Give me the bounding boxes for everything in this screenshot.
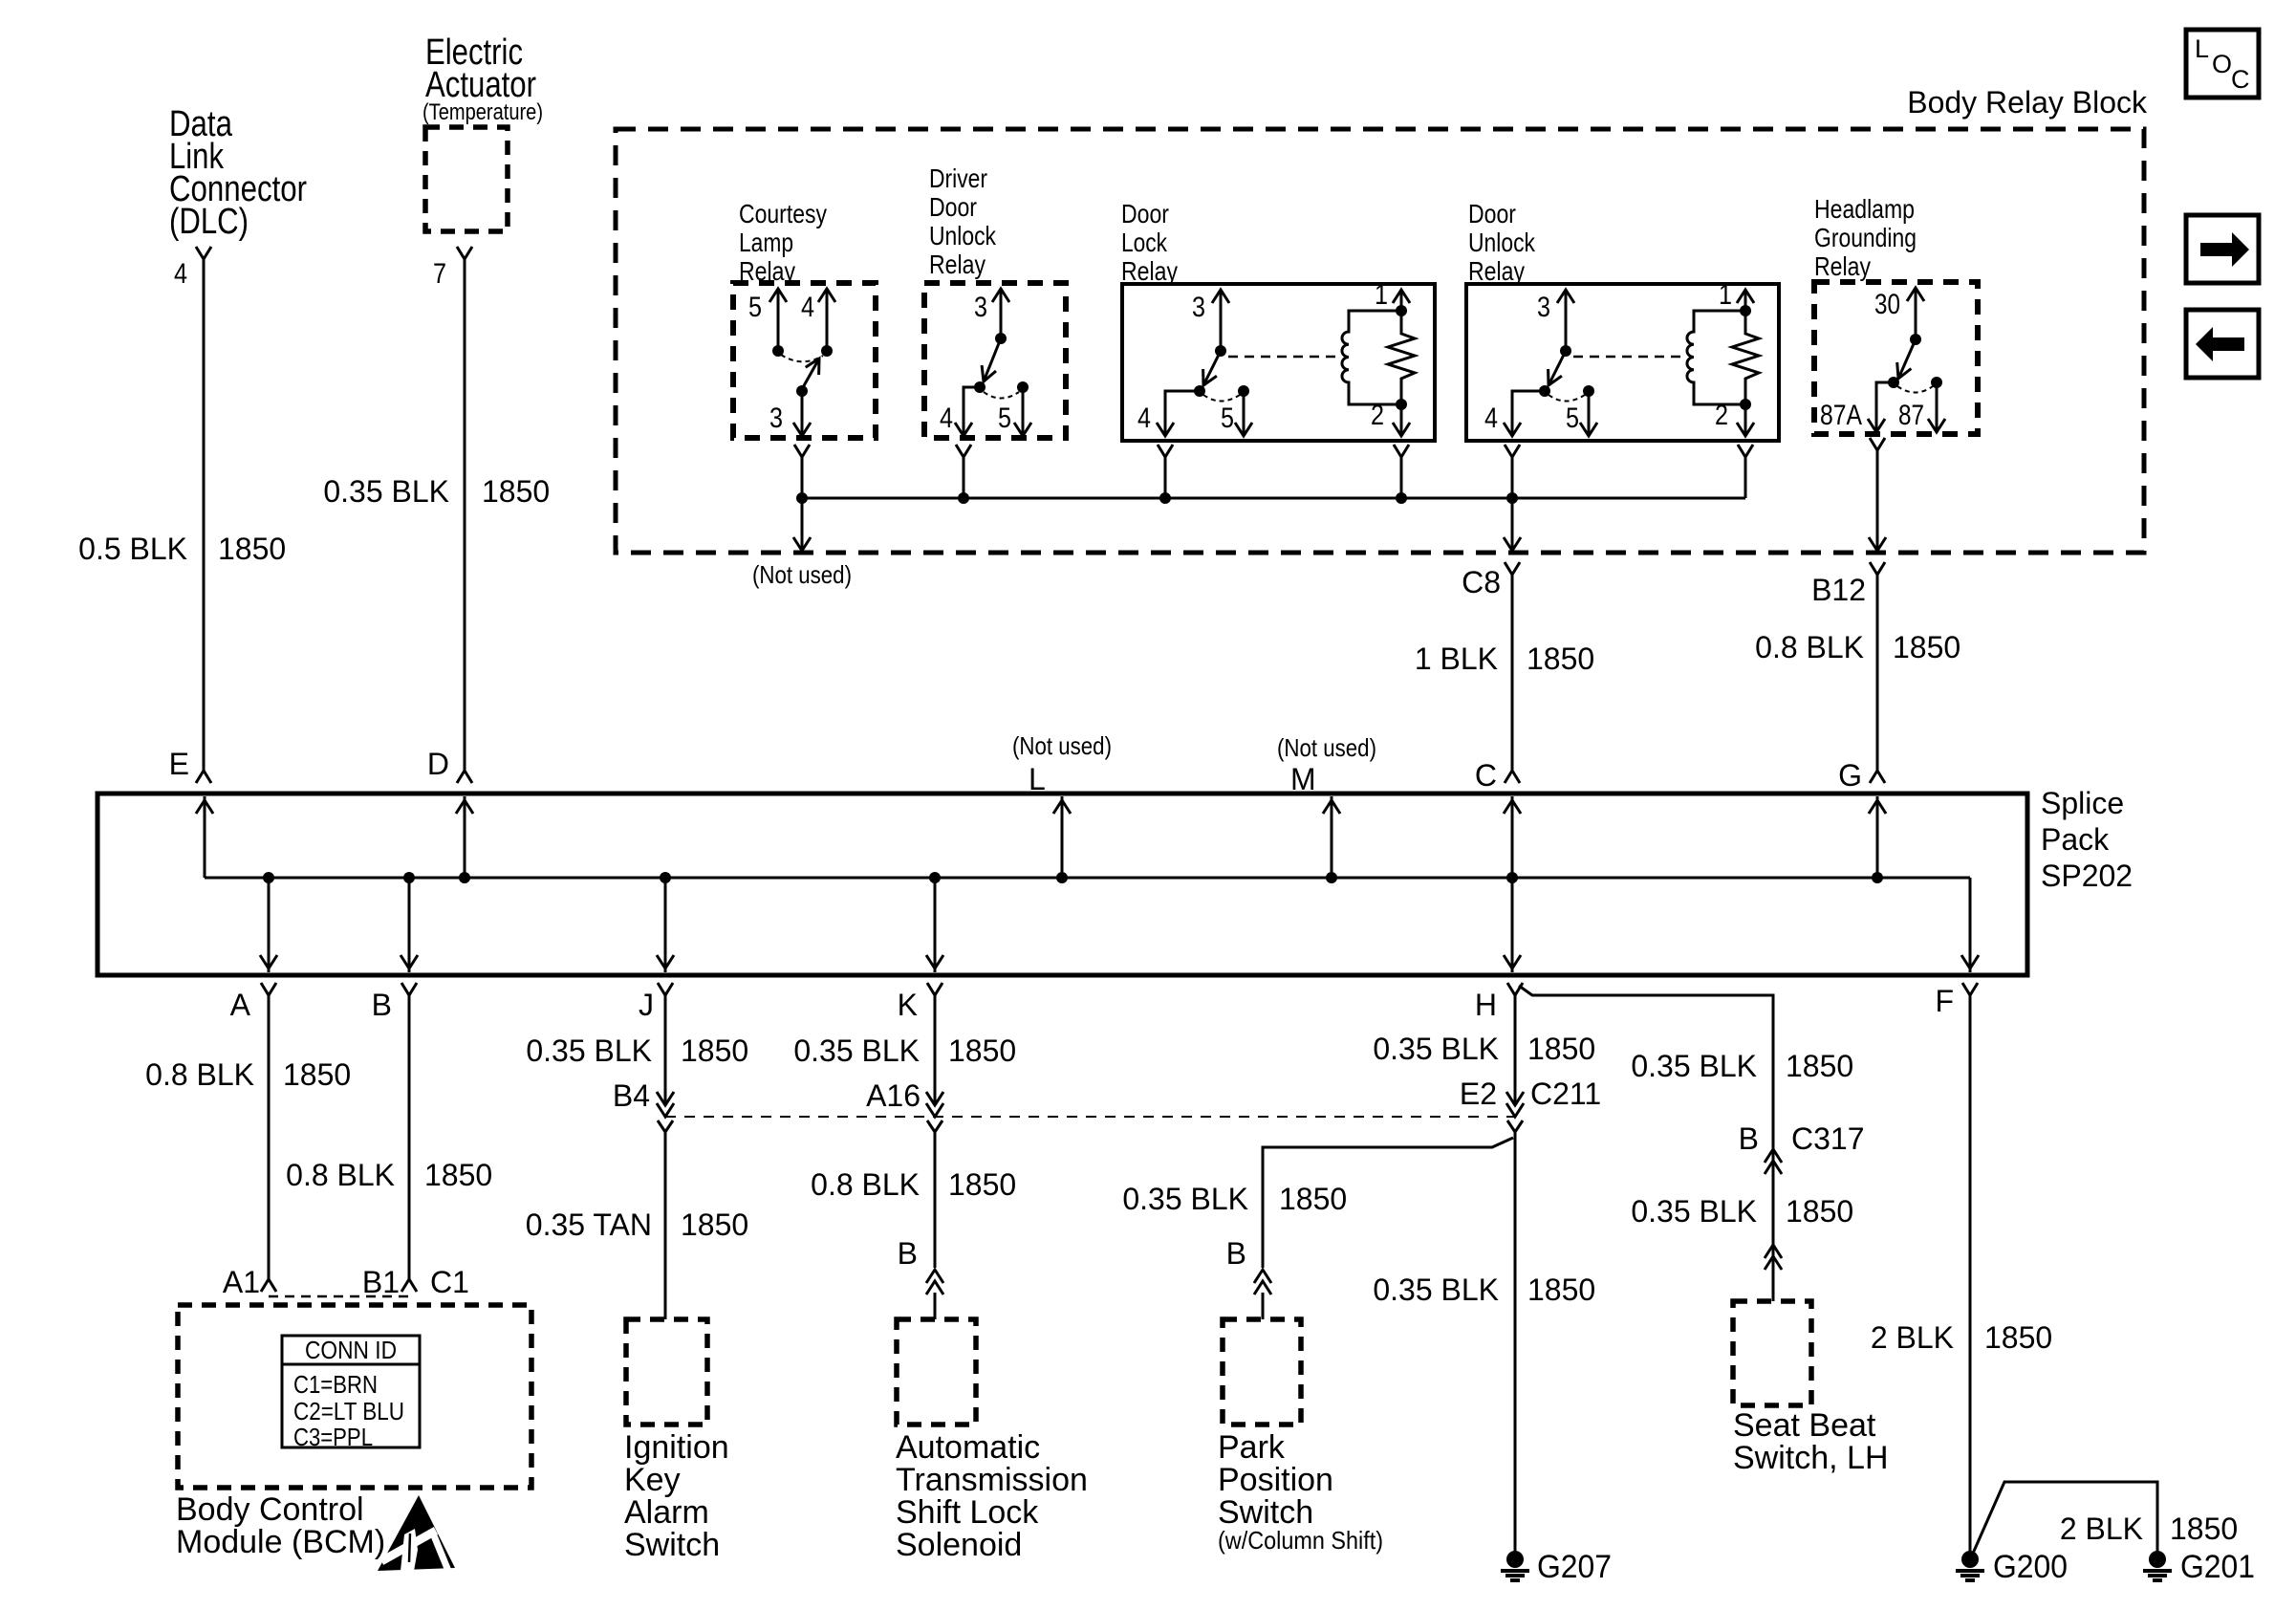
- switch arc: [1549, 395, 1585, 402]
- actuator pin 7 connector: [433, 247, 472, 290]
- svg-text:E2: E2: [1460, 1077, 1497, 1111]
- pin A16 connector: [866, 1078, 943, 1117]
- svg-text:1850: 1850: [283, 1057, 351, 1092]
- svg-text:0.35 BLK: 0.35 BLK: [323, 474, 449, 509]
- Body Relay Block title: [1907, 85, 2148, 120]
- svg-text:(Not used): (Not used): [1012, 731, 1112, 760]
- coil link dashed: [1573, 356, 1686, 359]
- pin 3: [1192, 290, 1229, 357]
- svg-text:0.35 BLK: 0.35 BLK: [1373, 1273, 1499, 1307]
- svg-text:Driver: Driver: [929, 163, 987, 193]
- terminal B arrow: [401, 872, 418, 972]
- switch arm: [1549, 351, 1566, 385]
- svg-text:Body Relay Block: Body Relay Block: [1907, 85, 2148, 120]
- svg-text:G207: G207: [1537, 1549, 1612, 1585]
- wire B12 to splice pack G: [1876, 575, 1879, 771]
- svg-text:J: J: [639, 988, 654, 1022]
- Ignition Key Alarm Switch box: [626, 1319, 707, 1425]
- svg-text:K: K: [898, 988, 918, 1022]
- svg-text:B: B: [898, 1236, 918, 1271]
- splice pack terminal G connector: [1838, 758, 1885, 793]
- pin 5: [998, 381, 1031, 436]
- switch arc: [781, 355, 823, 361]
- relay coil: [1342, 311, 1401, 404]
- Electric Actuator label: [422, 33, 543, 125]
- terminal H connector: [1475, 983, 1523, 1022]
- svg-text:1850: 1850: [2170, 1512, 2238, 1546]
- wire K to solenoid: [934, 1132, 937, 1268]
- Door Lock Relay title: [1121, 199, 1178, 286]
- K lower connector: [927, 1120, 942, 1132]
- Driver Door Unlock Relay title: [929, 163, 997, 279]
- pin 3: [769, 391, 811, 436]
- wire label 0.35 BLK 1850: [793, 1033, 1016, 1068]
- relay K5 Headlamp Grounding Relay box: [1814, 282, 1978, 434]
- svg-text:(DLC): (DLC): [169, 202, 249, 242]
- svg-text:1: 1: [1375, 279, 1388, 311]
- svg-text:5: 5: [1221, 402, 1234, 434]
- Park Position Switch box: [1223, 1319, 1301, 1425]
- svg-text:Body Control: Body Control: [176, 1491, 364, 1528]
- C8 exit arrow: [1504, 537, 1521, 551]
- ground G201: [2143, 1549, 2255, 1585]
- switch arm: [1203, 351, 1221, 385]
- relay box: [1466, 284, 1779, 441]
- terminal A arrow: [260, 872, 277, 972]
- wire label 2 BLK 1850: [1871, 1320, 2052, 1355]
- switch arc: [1203, 395, 1240, 402]
- wire label 0.35 BLK 1850: [1373, 1273, 1595, 1307]
- svg-text:1: 1: [1719, 279, 1732, 311]
- svg-text:0.5 BLK: 0.5 BLK: [78, 532, 187, 566]
- svg-text:A16: A16: [866, 1078, 921, 1113]
- svg-text:Alarm: Alarm: [624, 1494, 709, 1531]
- wire F to ground G200: [1969, 995, 1972, 1551]
- svg-text:1850: 1850: [681, 1033, 748, 1068]
- wire label 0.35 BLK 1850: [1631, 1194, 1853, 1229]
- forward arrow box: [2186, 215, 2259, 283]
- svg-text:2: 2: [1715, 400, 1728, 431]
- svg-text:E: E: [169, 747, 189, 781]
- node B12 connector: [1811, 562, 1885, 607]
- Automatic Transmission Shift Lock Solenoid box: [897, 1319, 976, 1425]
- wire label 0.35 BLK 1850: [526, 1033, 748, 1068]
- wire label 0.8 BLK 1850: [1755, 630, 1960, 664]
- svg-text:(Temperature): (Temperature): [422, 99, 543, 125]
- pin 5: [1566, 385, 1597, 436]
- svg-text:C211: C211: [1530, 1077, 1601, 1111]
- pin 1: [1375, 279, 1410, 316]
- not used drop wire: [793, 498, 811, 551]
- splice pack terminal C connector: [1475, 758, 1520, 793]
- wire H to ground G207: [1514, 1132, 1517, 1551]
- svg-text:4: 4: [801, 292, 814, 323]
- wire D from actuator to splice pack: [464, 259, 466, 771]
- splice bus: [205, 877, 1970, 880]
- wire label 0.8 BLK 1850: [286, 1158, 492, 1192]
- svg-text:O: O: [2212, 50, 2232, 78]
- svg-text:5: 5: [748, 292, 762, 323]
- pin 4: [801, 289, 835, 357]
- seat belt switch connector: [1765, 1245, 1782, 1270]
- switch arm: [1897, 339, 1916, 379]
- svg-text:B12: B12: [1811, 573, 1866, 607]
- pin B connector C317: [1739, 1121, 1865, 1174]
- svg-text:B: B: [1739, 1121, 1759, 1156]
- (Not used) label for L: [1012, 731, 1112, 796]
- svg-text:4: 4: [174, 258, 187, 290]
- svg-text:Unlock: Unlock: [929, 221, 997, 250]
- svg-text:87A: 87A: [1820, 400, 1862, 431]
- svg-text:A: A: [230, 988, 251, 1022]
- svg-text:Relay: Relay: [1121, 256, 1178, 286]
- wire C8 to splice pack C: [1511, 575, 1514, 771]
- pin 87A: [1820, 377, 1899, 432]
- svg-text:(w/Column Shift): (w/Column Shift): [1218, 1526, 1383, 1555]
- svg-text:0.8 BLK: 0.8 BLK: [145, 1057, 254, 1092]
- back arrow box: [2186, 310, 2259, 378]
- Body Control Module box: [178, 1305, 531, 1488]
- svg-text:87: 87: [1898, 400, 1924, 431]
- Body Relay Block boundary: [616, 129, 2144, 553]
- svg-text:1850: 1850: [482, 474, 550, 509]
- relay coil: [1687, 311, 1745, 404]
- Data Link Connector (DLC) label: [169, 104, 307, 242]
- svg-text:Grounding: Grounding: [1814, 223, 1917, 252]
- svg-text:G201: G201: [2180, 1549, 2255, 1585]
- pin 4: [1484, 385, 1550, 436]
- svg-text:5: 5: [998, 402, 1011, 434]
- svg-text:B: B: [1226, 1236, 1246, 1271]
- wire label 0.5 BLK 1850: [78, 532, 286, 566]
- svg-text:3: 3: [1192, 292, 1205, 323]
- pin A1 connector: [223, 1265, 276, 1299]
- wire label 0.8 BLK 1850: [811, 1167, 1016, 1202]
- wire label 0.35 BLK 1850: [323, 474, 550, 509]
- svg-text:2 BLK: 2 BLK: [2060, 1512, 2143, 1546]
- Automatic Transmission Shift Lock Solenoid label: [896, 1429, 1088, 1563]
- Body Control Module label: [176, 1491, 385, 1560]
- H lower connector: [1507, 1120, 1523, 1132]
- svg-text:Relay: Relay: [929, 250, 986, 279]
- svg-text:1850: 1850: [681, 1207, 748, 1242]
- Headlamp Grounding Relay title: [1814, 194, 1917, 281]
- svg-text:2: 2: [1371, 400, 1384, 431]
- relay K1 Courtesy Lamp Relay box: [733, 283, 876, 438]
- terminal C H line: [1504, 796, 1521, 972]
- svg-text:0.8 BLK: 0.8 BLK: [811, 1167, 920, 1202]
- terminal A connector: [230, 983, 276, 1022]
- svg-text:Shift Lock: Shift Lock: [896, 1494, 1039, 1531]
- svg-text:C: C: [1475, 758, 1497, 793]
- svg-text:0.35 BLK: 0.35 BLK: [1631, 1049, 1757, 1083]
- svg-text:D: D: [427, 747, 449, 781]
- door lock pin2 connector: [1394, 445, 1409, 498]
- relay box: [1122, 284, 1435, 441]
- switch arm: [796, 359, 819, 397]
- svg-text:0.35 BLK: 0.35 BLK: [1631, 1194, 1757, 1229]
- terminal L arrow: [1053, 796, 1071, 883]
- svg-text:Lock: Lock: [1121, 228, 1168, 257]
- svg-text:B1: B1: [362, 1265, 400, 1299]
- relay resistor: [1388, 311, 1415, 404]
- terminal K arrow: [926, 872, 943, 972]
- svg-text:0.8 BLK: 0.8 BLK: [1755, 630, 1864, 664]
- pin 2: [1715, 399, 1754, 436]
- terminal D arrow: [456, 796, 473, 883]
- pin 5: [748, 289, 787, 357]
- wire seat belt switch branch: [1519, 986, 1773, 1301]
- svg-text:C1: C1: [430, 1265, 469, 1299]
- relay K2 Driver Door Unlock Relay box: [924, 283, 1066, 438]
- svg-text:H: H: [1475, 988, 1497, 1022]
- svg-text:Solenoid: Solenoid: [896, 1527, 1022, 1563]
- svg-text:L: L: [2195, 34, 2209, 63]
- J lower connector: [658, 1120, 673, 1132]
- Splice Pack SP202 label: [2041, 786, 2133, 893]
- svg-text:Module (BCM): Module (BCM): [176, 1524, 385, 1560]
- wire label 0.35 BLK 1850: [1631, 1049, 1853, 1083]
- terminal M arrow: [1323, 796, 1340, 883]
- svg-text:C: C: [2231, 65, 2250, 94]
- Seat Beat Switch box: [1733, 1301, 1811, 1405]
- pin 30: [1874, 288, 1924, 345]
- CONN ID table: [282, 1336, 420, 1451]
- door lock pin4 connector: [1158, 445, 1173, 498]
- svg-text:SP202: SP202: [2041, 859, 2133, 893]
- svg-text:Door: Door: [1121, 199, 1169, 228]
- pin 3: [974, 289, 1009, 344]
- courtesy relay pin3 connector: [794, 445, 810, 498]
- svg-text:Splice: Splice: [2041, 786, 2124, 820]
- ground bus inside body relay block: [796, 492, 1745, 504]
- B12 exit arrow: [1869, 537, 1886, 551]
- svg-text:1850: 1850: [1527, 642, 1594, 676]
- Door Unlock Relay title: [1468, 199, 1536, 286]
- svg-text:0.35 BLK: 0.35 BLK: [1122, 1182, 1248, 1216]
- Seat Beat Switch label: [1733, 1407, 1889, 1476]
- svg-text:4: 4: [940, 402, 953, 434]
- svg-text:Transmission: Transmission: [896, 1462, 1088, 1498]
- pin 5: [1221, 385, 1252, 436]
- wire K upper: [934, 995, 937, 1105]
- svg-text:1850: 1850: [1527, 1032, 1595, 1066]
- svg-text:0.35 TAN: 0.35 TAN: [526, 1207, 652, 1242]
- svg-text:Switch, LH: Switch, LH: [1733, 1440, 1889, 1476]
- Splice Pack SP202 box: [97, 794, 2027, 975]
- pin 4: [1137, 385, 1205, 436]
- wire label 1 BLK 1850: [1415, 642, 1594, 676]
- door unlock pin4 connector: [1505, 445, 1520, 549]
- svg-text:3: 3: [974, 292, 987, 323]
- svg-text:30: 30: [1874, 289, 1900, 320]
- svg-text:G: G: [1838, 758, 1862, 793]
- wire label 0.35 TAN 1850: [526, 1207, 748, 1242]
- svg-text:Position: Position: [1218, 1462, 1333, 1498]
- node C8 connector: [1462, 562, 1520, 599]
- svg-text:Unlock: Unlock: [1468, 228, 1536, 257]
- svg-text:B4: B4: [613, 1078, 650, 1113]
- svg-text:Seat Beat: Seat Beat: [1733, 1407, 1876, 1444]
- terminal K connector: [898, 983, 942, 1022]
- pin 4: [940, 381, 986, 436]
- wire J upper: [664, 995, 667, 1105]
- (Not used) label: [752, 560, 852, 589]
- ground G200: [1956, 1549, 2068, 1585]
- LOC legend box: [2186, 30, 2259, 98]
- svg-text:1850: 1850: [424, 1158, 492, 1192]
- svg-text:A1: A1: [223, 1265, 260, 1299]
- (Not used) label for M: [1277, 733, 1376, 796]
- wire G200 to G201: [1972, 1482, 2157, 1556]
- wire H upper: [1514, 995, 1517, 1105]
- svg-text:7: 7: [433, 258, 446, 290]
- svg-text:0.35 BLK: 0.35 BLK: [793, 1033, 920, 1068]
- switch arc: [1897, 386, 1933, 393]
- svg-text:Door: Door: [929, 192, 977, 222]
- driver relay pin4 connector: [956, 445, 971, 498]
- splice pack terminal E connector: [169, 747, 211, 783]
- svg-text:1850: 1850: [948, 1167, 1016, 1202]
- pin 87: [1898, 377, 1945, 432]
- svg-text:Switch: Switch: [624, 1527, 720, 1563]
- terminal B connector: [372, 983, 417, 1022]
- BCM connector face dashed: [269, 1295, 409, 1298]
- svg-text:3: 3: [769, 402, 783, 434]
- terminal J connector: [639, 983, 673, 1022]
- Park Position Switch label: [1218, 1429, 1383, 1555]
- switch arm: [982, 338, 1001, 381]
- terminal F connector: [1935, 983, 1978, 1018]
- wire B to BCM: [408, 995, 411, 1279]
- svg-text:Automatic: Automatic: [896, 1429, 1040, 1466]
- pin 3: [1537, 290, 1574, 357]
- svg-text:C3=PPL: C3=PPL: [293, 1423, 373, 1451]
- svg-text:1850: 1850: [1527, 1273, 1595, 1307]
- svg-text:Headlamp: Headlamp: [1814, 194, 1915, 224]
- svg-text:C8: C8: [1462, 565, 1501, 599]
- svg-text:B: B: [372, 988, 392, 1022]
- ESD symbol: [378, 1495, 455, 1571]
- svg-text:0.8 BLK: 0.8 BLK: [286, 1158, 395, 1192]
- relay resistor: [1732, 311, 1759, 404]
- svg-text:Pack: Pack: [2041, 822, 2110, 857]
- svg-text:1850: 1850: [1786, 1194, 1853, 1229]
- pin B connector: [898, 1236, 943, 1319]
- svg-text:Courtesy: Courtesy: [739, 199, 827, 228]
- pin 1: [1719, 279, 1754, 316]
- svg-text:5: 5: [1566, 402, 1579, 434]
- svg-text:Park: Park: [1218, 1429, 1286, 1466]
- electric actuator box: [425, 127, 508, 231]
- svg-text:1850: 1850: [1279, 1182, 1347, 1216]
- door unlock pin2 connector: [1738, 445, 1753, 498]
- svg-text:C1=BRN: C1=BRN: [293, 1370, 378, 1399]
- svg-text:3: 3: [1537, 292, 1550, 323]
- svg-text:1850: 1850: [218, 532, 286, 566]
- switch arc: [984, 392, 1019, 399]
- terminal E arrow: [196, 796, 213, 878]
- wire E from DLC to splice pack: [203, 259, 206, 771]
- svg-text:4: 4: [1137, 402, 1151, 434]
- svg-text:1850: 1850: [948, 1033, 1016, 1068]
- svg-text:Relay: Relay: [1814, 251, 1871, 281]
- svg-text:Key: Key: [624, 1462, 681, 1498]
- svg-text:1 BLK: 1 BLK: [1415, 642, 1498, 676]
- connector C211 dashed line: [665, 1116, 1515, 1118]
- wire label 0.8 BLK 1850: [145, 1057, 351, 1092]
- wire park position switch branch: [1263, 1138, 1513, 1268]
- headlamp 87A connector: [1870, 438, 1885, 549]
- svg-text:0.35 BLK: 0.35 BLK: [1373, 1032, 1499, 1066]
- pin B1 connector C1: [362, 1265, 469, 1299]
- svg-text:0.35 BLK: 0.35 BLK: [526, 1033, 652, 1068]
- svg-text:2 BLK: 2 BLK: [1871, 1320, 1954, 1355]
- wire J to ignition switch: [664, 1132, 667, 1319]
- splice pack terminal D connector: [427, 747, 472, 783]
- svg-text:C2=LT BLU: C2=LT BLU: [293, 1397, 404, 1425]
- ground G207: [1501, 1549, 1612, 1585]
- pin 2: [1371, 399, 1410, 436]
- svg-text:1850: 1850: [1786, 1049, 1853, 1083]
- svg-text:F: F: [1935, 984, 1954, 1018]
- Courtesy Lamp Relay title: [739, 199, 827, 286]
- svg-text:Ignition: Ignition: [624, 1429, 729, 1466]
- svg-text:G200: G200: [1993, 1549, 2068, 1585]
- svg-text:(Not used): (Not used): [1277, 733, 1376, 762]
- DLC pin 4 connector: [174, 247, 211, 290]
- wire A to BCM: [268, 995, 271, 1279]
- svg-text:CONN ID: CONN ID: [305, 1336, 397, 1364]
- wire label 0.35 BLK 1850: [1122, 1182, 1347, 1216]
- svg-text:C317: C317: [1791, 1121, 1865, 1156]
- svg-text:Lamp: Lamp: [739, 228, 793, 257]
- wire label 2 BLK 1850: [2060, 1512, 2238, 1546]
- Ignition Key Alarm Switch label: [624, 1429, 729, 1563]
- pin E2 connector C211: [1460, 1077, 1601, 1117]
- pin B4 connector: [613, 1078, 674, 1117]
- terminal J arrow: [657, 872, 674, 972]
- terminal G arrow: [1869, 796, 1886, 883]
- svg-text:Door: Door: [1468, 199, 1516, 228]
- svg-text:4: 4: [1484, 402, 1498, 434]
- wire label 0.35 BLK 1850: [1373, 1032, 1595, 1066]
- svg-text:1850: 1850: [1893, 630, 1960, 664]
- terminal F arrow: [1961, 878, 1979, 972]
- svg-text:1850: 1850: [1984, 1320, 2052, 1355]
- svg-text:Relay: Relay: [1468, 256, 1525, 286]
- svg-text:(Not used): (Not used): [752, 560, 852, 589]
- coil link dashed: [1228, 356, 1341, 359]
- pin B connector park switch: [1226, 1236, 1271, 1319]
